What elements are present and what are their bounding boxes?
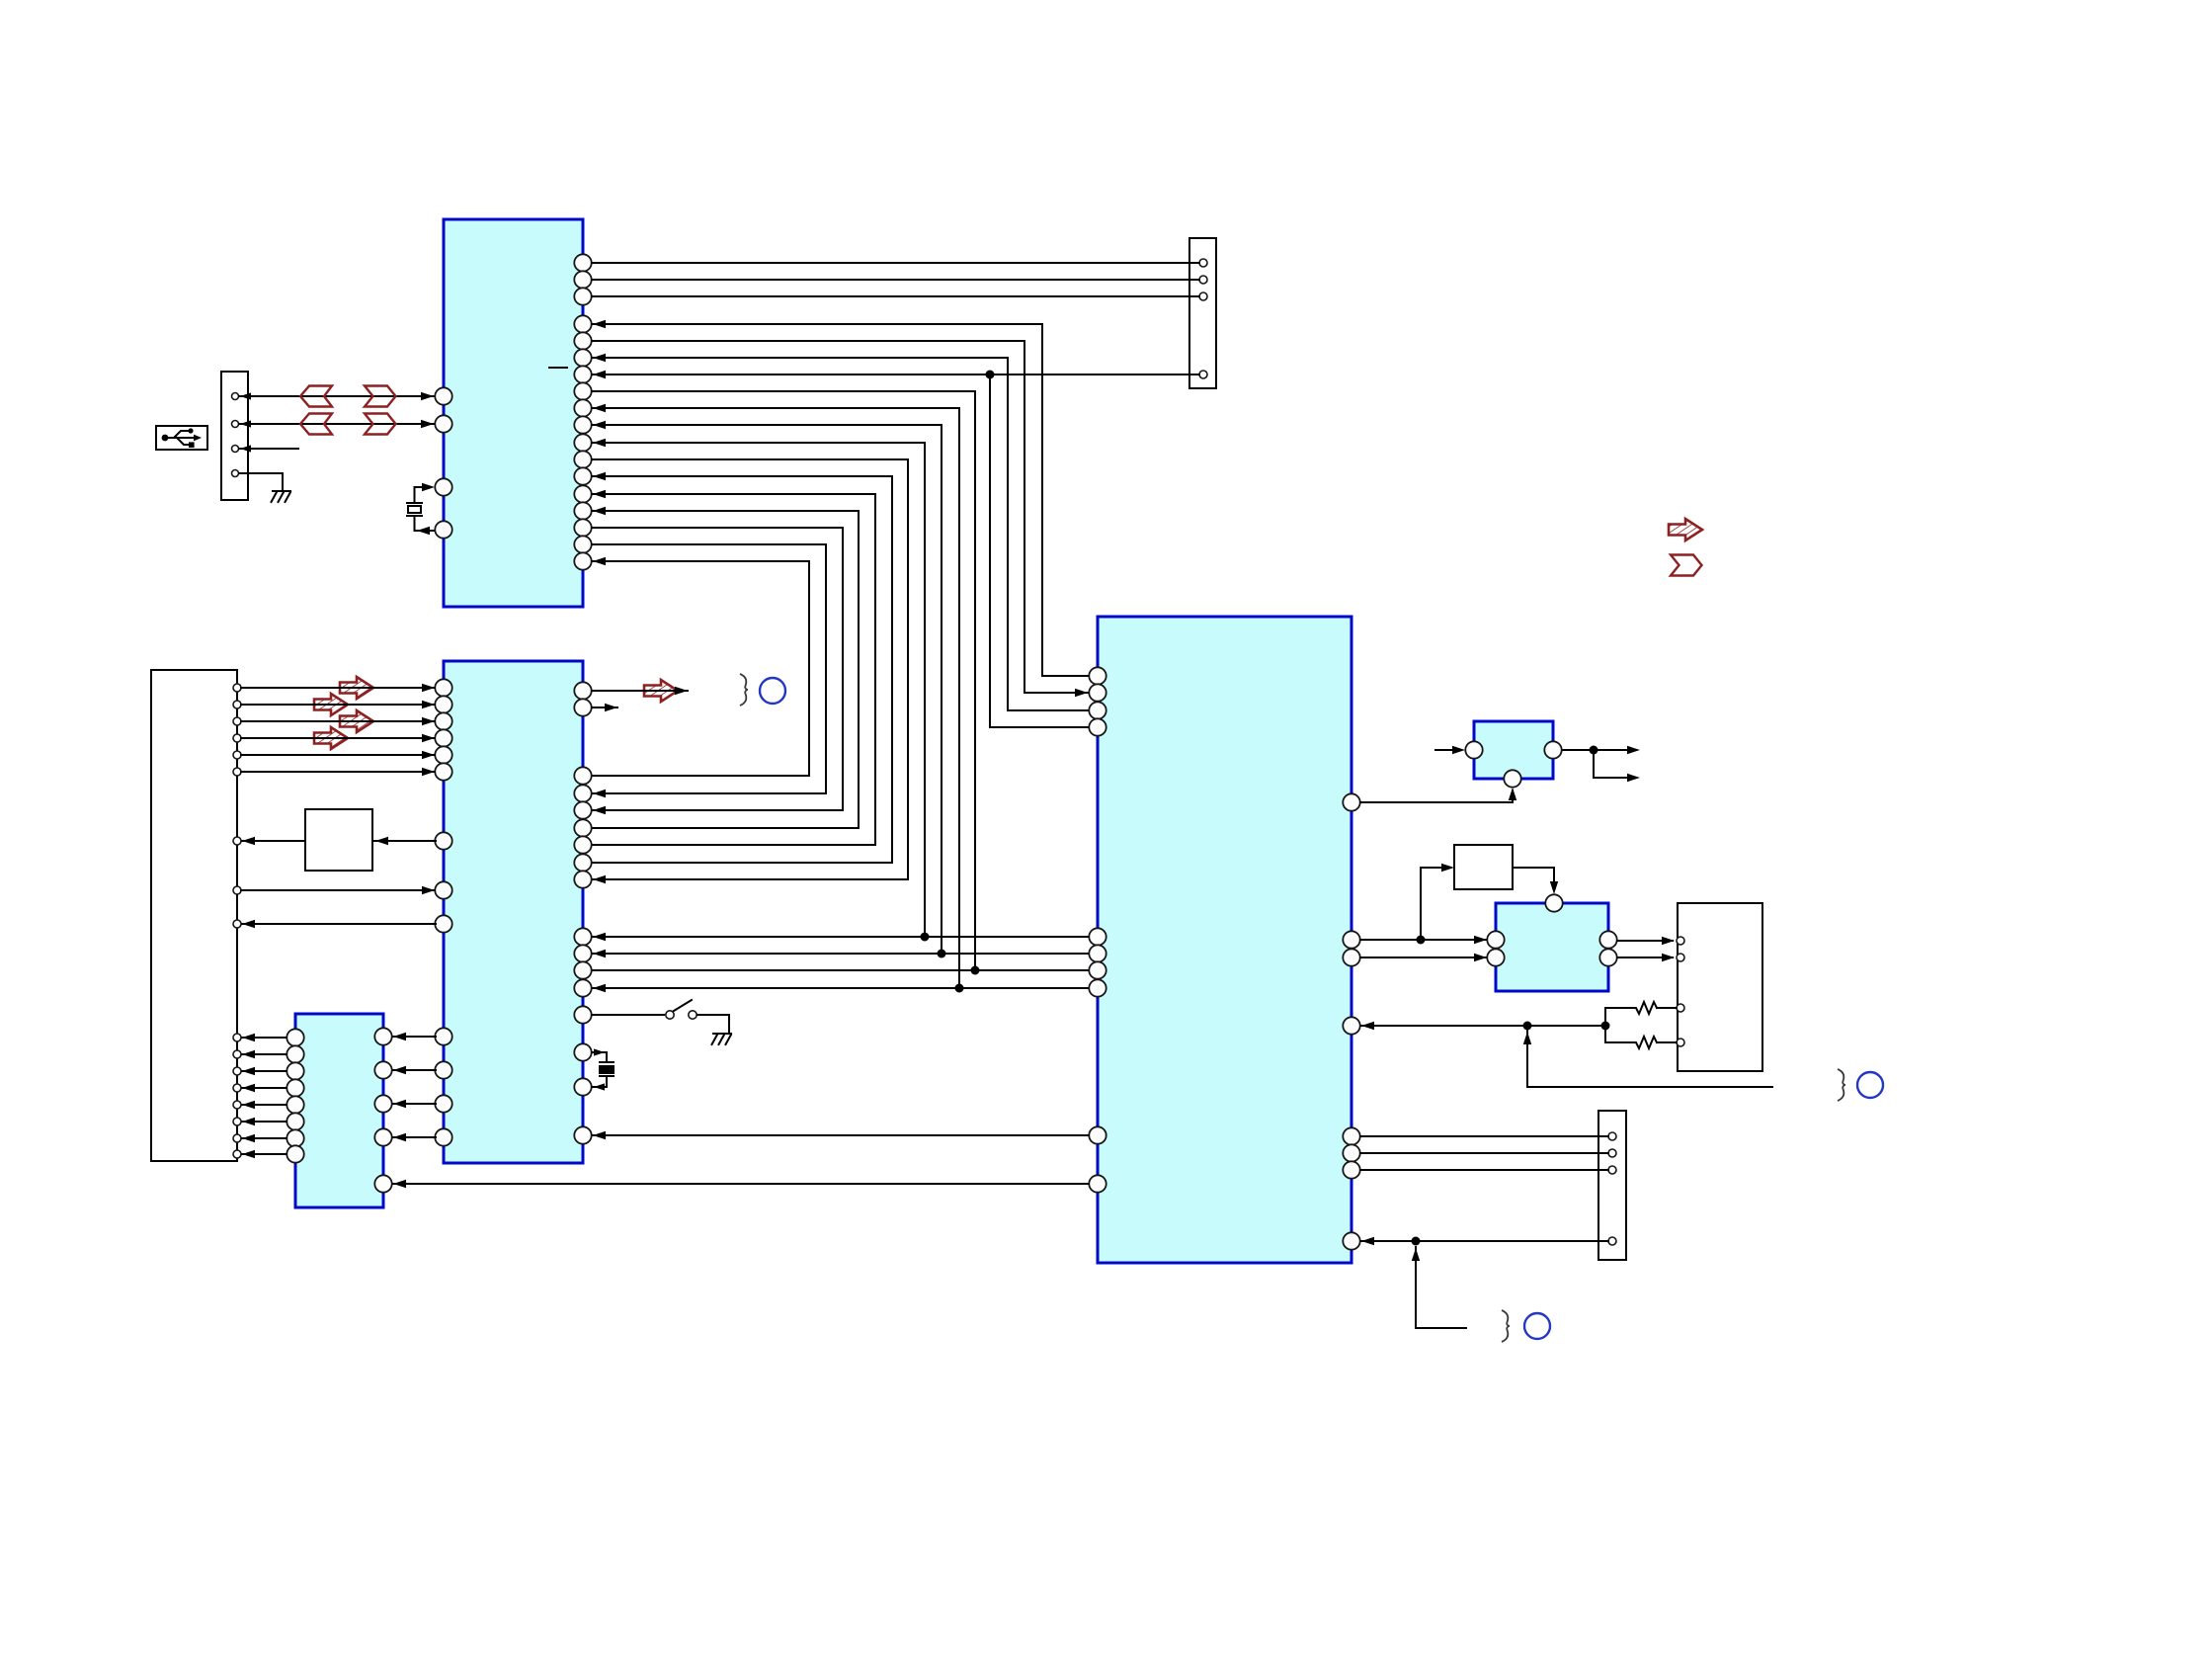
wire R2 left [1605, 1041, 1633, 1043]
U2 left pin [435, 696, 451, 712]
wire input stub to U5 [1435, 749, 1461, 751]
arrow into CN1 pin3 [240, 445, 251, 452]
wire U2 to U3 (long row) [593, 1134, 1089, 1136]
arrow into CN2 pin [242, 1084, 255, 1092]
arrow into U4 pin [393, 1100, 406, 1108]
U2 left pin [435, 729, 451, 746]
U2 right pin [574, 1126, 591, 1143]
junction dot feedback [1523, 1022, 1532, 1031]
red bus arrow [340, 710, 373, 732]
wire U2 output stub [592, 707, 617, 708]
wire U6 to CN4 row1 [1617, 940, 1673, 942]
arrow head of stub [605, 704, 617, 711]
wire CN2 to U2 [241, 737, 435, 739]
U4 left pin [287, 1145, 303, 1162]
wire into U3 pin L4 [990, 726, 1089, 728]
U1 right pin [574, 416, 591, 433]
wire CN2 to U2 row2 [241, 889, 435, 891]
wire U2 to U4 [393, 1136, 436, 1138]
U1 right pin [574, 485, 591, 502]
CN1 pin [232, 421, 239, 428]
crystal X1 [407, 503, 422, 516]
U1 left pin [435, 387, 451, 404]
U4 right pin [374, 1128, 391, 1145]
junction dot on U2-U3 row [921, 933, 930, 942]
wire marker drop vertical [1415, 1247, 1417, 1328]
U6 left pin2 [1487, 949, 1504, 965]
IC U5 regulator (right small) [1474, 721, 1553, 779]
arrow into U1 pin [593, 507, 606, 515]
wire X1 top [415, 487, 427, 503]
CN2 pin [233, 1150, 241, 1158]
chevron pair D- left [300, 414, 332, 435]
arrow stub1 [1627, 746, 1640, 754]
junction dot on U2-U3 row [971, 966, 980, 975]
U2 right pin [574, 945, 591, 961]
CN5 pin [1608, 1166, 1616, 1174]
U3 left pin [1089, 1126, 1106, 1143]
CN5 pin [1608, 1149, 1616, 1157]
arrow into U1 pin [593, 354, 606, 362]
U1 right pin [574, 467, 591, 484]
wire U4 to CN2 [242, 1070, 287, 1072]
U3 left pin [1089, 667, 1106, 684]
arrow into U1 pin [593, 371, 606, 378]
U2 left pin [435, 832, 451, 849]
U2 right pin [574, 854, 591, 871]
wire bus vertical [858, 511, 860, 828]
wire into U2 right pin [592, 827, 859, 829]
junction dot on U6 row1 [1417, 936, 1426, 945]
connector CN3 (top right) [1189, 238, 1216, 388]
marker brace M2 [1838, 1069, 1845, 1101]
wire U3 to CN5 [1360, 1169, 1608, 1171]
wire resistor ladder vertical [1604, 1008, 1606, 1042]
wire bus vertical [825, 544, 827, 793]
U2 left pin [435, 1128, 451, 1145]
U3 left pin [1089, 928, 1106, 945]
switch SW1 lever [674, 1000, 692, 1011]
wire into U2 right pin [592, 775, 809, 777]
CN2 pin [233, 1118, 241, 1125]
wire U4 to CN2 [242, 1037, 287, 1039]
arrow up into junction [1412, 1248, 1420, 1261]
arrow into CN1 pin1 [240, 392, 251, 399]
wire CN1 pin3 stub [239, 448, 298, 450]
U1 right pin [574, 519, 591, 536]
marker circle M3 [1524, 1313, 1550, 1339]
wire U2 to CN2 row3 [242, 923, 436, 925]
U4 left pin [287, 1079, 303, 1096]
U1 right pin [574, 271, 591, 288]
wire U3 to U6 row1 [1360, 939, 1487, 941]
wire U5 output stub 1 [1594, 749, 1627, 751]
arrow into U2 pin [593, 790, 606, 797]
USB trident symbol [166, 431, 196, 445]
wire into U3 left pin [1008, 709, 1089, 711]
U1 right pin [574, 451, 591, 467]
IC U6 driver (right small 2) [1496, 903, 1608, 991]
CN2 pin [233, 1134, 241, 1142]
wire into U2 right pin [592, 844, 875, 846]
U2 left pin [435, 712, 451, 729]
arrow into U1 pin [593, 320, 606, 328]
chevron pair D+ left [300, 386, 332, 407]
junction dot on U2-U3 row [955, 984, 964, 993]
wire U1 pin horizontal [592, 442, 925, 444]
junction on U5 output [1590, 746, 1598, 755]
U3 left pin [1089, 684, 1106, 701]
wire U1 pin horizontal [592, 390, 975, 392]
wire U1 pin horizontal [592, 543, 826, 545]
arrow into U1 pin [593, 404, 606, 412]
ground GND2 [712, 1034, 732, 1044]
U1 right pin [574, 536, 591, 552]
wire U3 to U5 bottom [1360, 790, 1513, 802]
wire X2 bottom [592, 1076, 607, 1087]
arrow on X2 bottom wire [594, 1083, 605, 1090]
U2 right pin [574, 979, 591, 996]
arrow into CN2 pin [242, 1134, 255, 1142]
CN4 pin [1677, 1004, 1684, 1012]
U2 left pin [435, 746, 451, 763]
arrow on X2 top wire [594, 1048, 605, 1055]
arrow into U4 pin [393, 1033, 406, 1040]
U3 left pin [1089, 961, 1106, 978]
wire U2 to SW1 [592, 1014, 664, 1016]
wire X1 bottom [415, 516, 436, 531]
wire U2 output with bus arrow [592, 690, 688, 692]
wire U4 to U3 (long) [393, 1183, 1089, 1185]
U4 left pin [287, 1062, 303, 1079]
arrow into U6 pin1 [1474, 936, 1487, 944]
arrow into U1 pin [593, 490, 606, 498]
CN3 pin [1199, 276, 1207, 284]
arrow into CN2 pin [242, 1067, 255, 1075]
wire U2 to U4 [393, 1069, 436, 1071]
wire U1 pin horizontal [592, 510, 859, 512]
U4 right pin [374, 1175, 391, 1192]
arrow into U4 pin [393, 1066, 406, 1074]
wire CN4 pin4 to R2 [1657, 1041, 1677, 1043]
red bus arrow [314, 694, 348, 715]
arrow head of output [675, 687, 688, 695]
CN2 pin [233, 837, 241, 845]
CN2 pin [233, 768, 241, 776]
USB symbol box [156, 426, 207, 450]
U3 right pin [1343, 1017, 1359, 1034]
CN3 pin [1199, 371, 1207, 378]
IC U1 microcontroller (top left) [444, 219, 583, 607]
U6 top pin [1545, 894, 1562, 911]
wire U4 to CN2 [242, 1121, 287, 1123]
U1 right pin [574, 382, 591, 399]
wire U1 pin horizontal [592, 560, 809, 562]
U1 right pin [574, 399, 591, 416]
U2 right pin [574, 819, 591, 836]
wire marker drop horizontal [1416, 1327, 1466, 1329]
wire CN5 pin4 to U3 [1361, 1240, 1608, 1242]
arrow into CN2 pin [242, 1150, 255, 1158]
wire USB D- net [239, 423, 435, 425]
U5 bottom pin [1504, 770, 1520, 787]
arrow into U3 pin [1361, 1022, 1374, 1030]
U2 right pin [574, 1043, 591, 1060]
arrow into U2 pin [593, 984, 606, 992]
wire feedback vertical [1526, 1031, 1528, 1087]
arrow into U1 pin [593, 439, 606, 447]
U4 right pin [374, 1028, 391, 1044]
CN2 pin [233, 1084, 241, 1092]
wire CN2 to U2 [241, 771, 435, 773]
arrow into U1 pin [593, 421, 606, 429]
wire U4 to CN2 [242, 1087, 287, 1089]
arrow into CN4 pin1 [1662, 937, 1675, 945]
arrow into B2 [1441, 864, 1454, 872]
wire U1 pin horizontal [592, 357, 1008, 359]
wire bus vertical [1041, 324, 1043, 676]
wire U2 to U3 row [592, 953, 1089, 955]
arrow on X1 bottom wire [417, 527, 430, 535]
wire bus vertical [808, 561, 810, 776]
arrow into U2 pin [422, 717, 435, 725]
red bus arrow on output [644, 680, 678, 702]
U3 left pin [1089, 945, 1106, 961]
CN2 pin [233, 1101, 241, 1109]
wire U2 to U3 row [592, 936, 1089, 938]
arrow into CN2 pin [242, 1118, 255, 1125]
U4 left pin [287, 1029, 303, 1045]
arrow into U2 pin [593, 875, 606, 883]
junction dot ladder [1601, 1022, 1610, 1031]
CN2 pin [233, 1034, 241, 1041]
wire bus vertical [874, 494, 876, 845]
arrow into CN4 pin2 [1662, 954, 1675, 961]
wire into U3 left pin [1024, 692, 1089, 694]
U6 right pin1 [1599, 931, 1616, 948]
U1 left pin [435, 521, 451, 538]
U3 right pin [1343, 931, 1359, 948]
connector CN5 (bottom right) [1598, 1111, 1626, 1260]
marker circle M2 [1857, 1072, 1883, 1098]
arrow into U2 pin [422, 701, 435, 708]
connector CN2 (left tall) [151, 670, 237, 1161]
wire U1 to CN3 [592, 279, 1199, 281]
arrow stub2 [1627, 774, 1640, 782]
U1 right pin [574, 502, 591, 519]
U2 left pin [435, 881, 451, 898]
wire into U3 left pin [1042, 675, 1089, 677]
U2 left pin [435, 1061, 451, 1078]
U1 right pin [574, 552, 591, 569]
U3 right pin [1343, 1232, 1359, 1249]
IC U4 level shifter (bottom left) [295, 1014, 383, 1207]
U4 left pin [287, 1045, 303, 1062]
arrow into CN1 pin2 [240, 420, 251, 427]
arrow into U2 pin [422, 768, 435, 776]
U2 left pin [435, 915, 451, 932]
arrow into CN2 pin [242, 1050, 255, 1058]
arrow into U2 pin [422, 751, 435, 759]
red bus arrow [314, 727, 348, 749]
wire B1 to CN2 [242, 840, 305, 842]
arrow into CN2 pin [242, 1101, 255, 1109]
arrow into U5 left pin [1452, 746, 1465, 754]
wire bus vertical [907, 459, 909, 879]
CN5 pin [1608, 1237, 1616, 1245]
wire U2 to box B1 [374, 840, 436, 842]
CN5 pin [1608, 1132, 1616, 1140]
wire U3 to CN5 [1360, 1152, 1608, 1154]
wire bus vertical [1024, 341, 1025, 693]
wire ladder to U3 [1361, 1025, 1605, 1027]
chevron pair D+ right [365, 386, 396, 407]
U2 right pin [574, 836, 591, 853]
CN2 pin [233, 920, 241, 928]
arrow into CN2 pin [242, 1034, 255, 1041]
U1 left pin [435, 478, 451, 495]
U3 left pin [1089, 718, 1106, 735]
U1 right pin [574, 288, 591, 304]
U2 right pin [574, 871, 591, 887]
CN4 pin [1677, 937, 1684, 945]
wire U5 output [1562, 749, 1594, 751]
wire bus vertical [958, 408, 960, 988]
U3 right pin [1343, 1144, 1359, 1161]
CN3 pin [1199, 259, 1207, 267]
wire U1 pin horizontal [592, 424, 942, 426]
U4 right pin [374, 1095, 391, 1112]
wire CN2 to U2 [241, 754, 435, 756]
U2 left pin [435, 1028, 451, 1044]
CN2 pin [233, 886, 241, 894]
box B1 [305, 809, 372, 871]
wire CN2 to U2 [241, 704, 435, 706]
arrow into CN2 pin [242, 837, 255, 845]
wire U6 to CN4 row2 [1617, 957, 1673, 958]
wire CN2 to U2 [241, 687, 435, 689]
wire U4 to CN2 [242, 1104, 287, 1106]
marker circle M1 [760, 678, 785, 704]
arrow into U2 pin [593, 933, 606, 941]
wire X2 top [592, 1052, 607, 1062]
arrow into U1 pin [593, 472, 606, 480]
arrow into U1 pin [421, 420, 434, 428]
wire into U2 right pin [592, 878, 908, 880]
U1 right pin [574, 434, 591, 451]
arrow up into feedback junction [1523, 1032, 1531, 1044]
U4 left pin [287, 1113, 303, 1129]
resistor R1 [1633, 1002, 1657, 1014]
wire SW1 to ground [697, 1015, 729, 1034]
switch SW1 contact b [689, 1011, 696, 1019]
wire U1 pin horizontal [592, 340, 1024, 342]
U3 right pin [1343, 793, 1359, 810]
wire U1 pin horizontal [592, 407, 959, 409]
U2 right pin [574, 785, 591, 801]
connector CN4 (right mid) [1678, 903, 1762, 1071]
red bus arrow [340, 677, 373, 699]
U2 left pin [435, 679, 451, 696]
arrow into U4 bottom pin [393, 1180, 406, 1188]
junction on through line [986, 371, 995, 379]
arrow into CN2 pin [242, 920, 255, 928]
U5 left pin [1465, 741, 1482, 758]
wire U3 to CN5 [1360, 1135, 1608, 1137]
wire R1 left [1605, 1007, 1633, 1009]
CN2 pin [233, 1067, 241, 1075]
crystal X2 body [599, 1065, 614, 1074]
wire U1 to CN3 [592, 295, 1199, 297]
wire bus vertical [924, 443, 926, 937]
CN3 pin [1199, 292, 1207, 300]
wire U4 to CN2 [242, 1153, 287, 1155]
junction dot on U2-U3 row [938, 950, 946, 958]
wire USB D+ net [239, 395, 435, 397]
U2 right pin [574, 682, 591, 699]
CN2 pin [233, 1050, 241, 1058]
U1 right pin [574, 349, 591, 366]
wire U1 pin horizontal [592, 527, 843, 529]
wire into U2 right pin [592, 809, 843, 811]
U1 right pin [574, 366, 591, 382]
U4 left pin [287, 1129, 303, 1146]
U2 right pin [574, 699, 591, 715]
U3 right pin [1343, 949, 1359, 965]
arrow down into U6 top pin [1550, 881, 1558, 894]
CN2 pin [233, 751, 241, 759]
U2 left pin [435, 763, 451, 780]
U1 right pin [574, 315, 591, 332]
legend chevron [1671, 555, 1702, 576]
CN2 pin [233, 734, 241, 742]
wire U4 to CN2 [242, 1137, 287, 1139]
arrow into B1 [375, 837, 388, 845]
CN2 pin [233, 701, 241, 708]
wire CN2 to U2 [241, 720, 435, 722]
IC U3 system LSI (right) [1098, 617, 1352, 1263]
U2 left pin [435, 1095, 451, 1112]
junction dot on CN5 row [1412, 1237, 1421, 1246]
connector CN1 (USB) [221, 372, 248, 500]
wire U1 pin horizontal [592, 475, 892, 477]
U1 left pin [435, 415, 451, 432]
U3 left pin [1089, 979, 1106, 996]
U3 left pin [1089, 702, 1106, 718]
CN1 pin [232, 470, 239, 477]
CN4 pin [1677, 954, 1684, 961]
wire U1 pin horizontal [592, 458, 908, 460]
U1 right pin [574, 254, 591, 271]
wire U1 pin horizontal [592, 323, 1042, 325]
wire B2 to U6 top [1513, 868, 1554, 890]
U2 right pin [574, 961, 591, 978]
wire U4 to CN2 [242, 1053, 287, 1055]
wire bus vertical [974, 391, 976, 970]
wire U1 pin horizontal [592, 493, 875, 495]
U6 right pin2 [1599, 949, 1616, 965]
wire feedback horizontal [1527, 1086, 1772, 1088]
U2 right pin [574, 1006, 591, 1023]
marker brace M1 [740, 674, 748, 706]
CN4 pin [1677, 1039, 1684, 1046]
arrow into U2 pin [422, 886, 435, 894]
arrow into U2 pin [593, 806, 606, 814]
arrow into U3 pin [1075, 689, 1088, 697]
U6 left pin1 [1487, 931, 1504, 948]
U1 right pin [574, 332, 591, 349]
wire U2 to U3 row [592, 969, 1089, 971]
